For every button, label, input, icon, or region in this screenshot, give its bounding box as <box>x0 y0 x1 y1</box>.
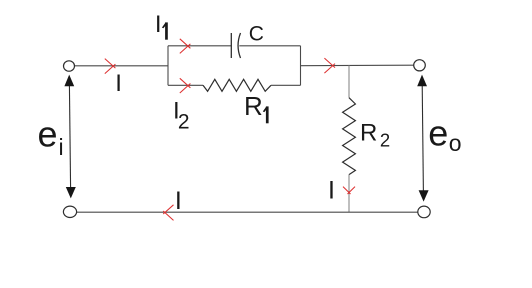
svg-text:2: 2 <box>380 130 390 151</box>
wire bottom return <box>76 211 418 213</box>
terminal node bottom-left <box>63 206 76 217</box>
resistor R2 zigzag <box>343 98 356 175</box>
terminal node bottom-right <box>418 206 430 218</box>
wire R2 lower stem to bottom wire <box>348 175 350 213</box>
wire bottom branch to resistor R1 <box>168 84 203 86</box>
wire top-left (input node to parallel network) <box>74 65 168 67</box>
svg-text:o: o <box>449 130 462 156</box>
voltage arrow e_i (double-headed) <box>64 75 75 199</box>
wire top branch to capacitor <box>168 45 231 47</box>
label I1 <box>155 11 168 40</box>
current arrow I on top-left wire (red) <box>105 59 116 74</box>
current arrow I through R2 pointing down (red) <box>343 187 355 194</box>
resistor R1 zigzag <box>203 79 271 91</box>
svg-text:R: R <box>360 120 377 147</box>
svg-text:C: C <box>249 22 264 45</box>
terminal node top-left <box>64 61 75 71</box>
wire capacitor to right bus <box>239 45 300 47</box>
svg-text:I: I <box>328 177 335 205</box>
label R1 <box>244 91 269 123</box>
current arrow I1 on capacitor branch (red) <box>180 39 191 54</box>
wire resistor R1 to right bus <box>271 84 301 86</box>
label e_o <box>428 113 461 156</box>
wire left vertical bus of parallel network <box>167 46 169 86</box>
wire R2 upper stem from node <box>348 66 350 98</box>
current arrow I2 on resistor branch (red) <box>180 78 191 93</box>
svg-text:2: 2 <box>178 110 190 133</box>
label I2 <box>173 98 190 134</box>
current arrow I on output wire (red) <box>324 58 335 73</box>
terminal node top-right <box>414 60 426 71</box>
voltage arrow e_o (double-headed) <box>417 75 428 202</box>
svg-text:R: R <box>244 91 263 121</box>
svg-text:I: I <box>155 11 162 38</box>
wire output node across to right terminal <box>301 64 415 67</box>
svg-text:e: e <box>38 114 58 155</box>
capacitor C1 plates <box>231 33 240 58</box>
svg-text:i: i <box>59 134 64 160</box>
svg-text:I: I <box>115 70 122 97</box>
current arrow I on bottom wire pointing left (red) <box>163 205 173 221</box>
svg-text:e: e <box>428 113 448 154</box>
label e_i <box>38 114 64 160</box>
label R2 <box>360 120 390 151</box>
svg-text:I: I <box>175 187 182 215</box>
wire right vertical bus of parallel network <box>300 46 302 86</box>
